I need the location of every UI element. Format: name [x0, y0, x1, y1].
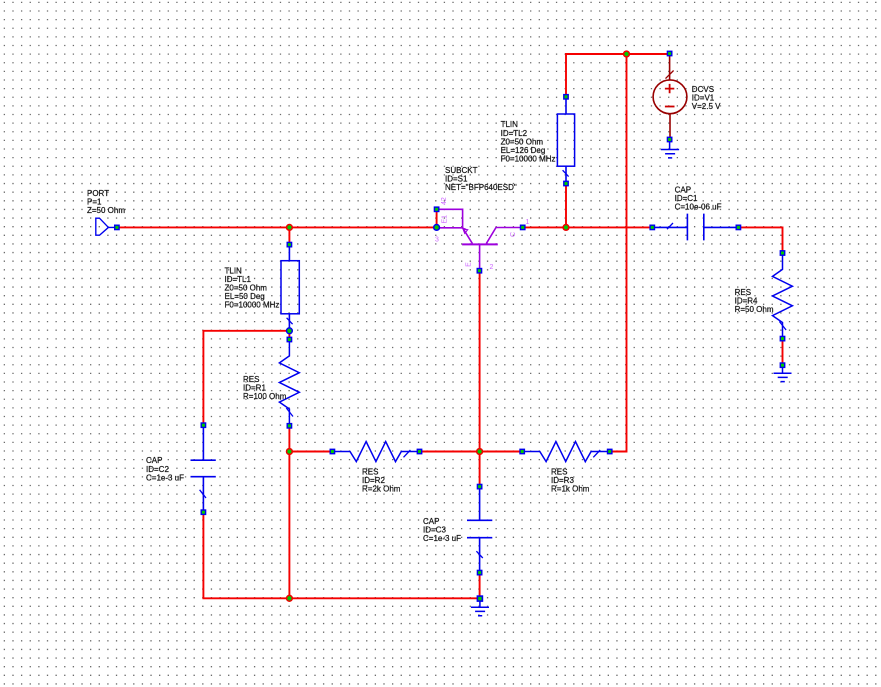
wire: C3 bottom to ground terminal	[479, 573, 481, 599]
terminal: ground under R4	[780, 363, 784, 367]
transmission line TL2	[557, 99, 574, 181]
capacitor C2	[191, 428, 216, 510]
label RES R2	[362, 467, 401, 493]
capacitor C3	[467, 489, 492, 570]
terminal: TL1 pin 1	[287, 242, 291, 246]
wire: node N3 to C1 left terminal	[566, 226, 652, 228]
node N6 (R1 / R2 / bottom branch)	[287, 449, 293, 455]
label CAP C1	[675, 185, 722, 211]
resistor R2	[335, 442, 417, 462]
node N1 (main line / TL1 branch)	[287, 225, 293, 231]
label DCVS V1	[692, 85, 721, 111]
svg-text:2: 2	[490, 264, 494, 271]
terminal: R4 pin 2	[780, 336, 784, 340]
ground symbol under C3	[471, 602, 489, 616]
terminal: C2 pin 1	[201, 423, 205, 427]
wire: node N5 stub to R1 top	[288, 331, 290, 340]
svg-text:1: 1	[526, 219, 530, 226]
label PORT P=1	[87, 189, 125, 215]
terminal: TL2 pin 2	[564, 181, 568, 185]
node N5 (TL1 bottom / C2 / R1)	[287, 328, 293, 334]
svg-text:F0=10000 MHz: F0=10000 MHz	[501, 155, 556, 164]
wire: node N8 to ground terminal	[289, 597, 480, 599]
wire: R1 bottom to node N6	[288, 426, 290, 452]
label SUBCKT S1	[445, 166, 517, 192]
resistor R4	[773, 256, 793, 337]
svg-text:Z=50 Ohm: Z=50 Ohm	[87, 206, 125, 215]
terminal: R1 pin 2	[287, 424, 291, 428]
svg-text:R=2k Ohm: R=2k Ohm	[362, 485, 401, 494]
wire: rail corner down to TL2 top	[565, 54, 567, 97]
terminal: C1 pin 1	[650, 225, 654, 229]
svg-text:V=2.5 V: V=2.5 V	[692, 102, 721, 111]
wire: R4 bottom to ground terminal	[782, 339, 784, 366]
transistor S1 pin number and name labels	[435, 197, 530, 271]
terminal: V1 plus pin	[667, 51, 671, 55]
terminal: V1 minus pin	[667, 137, 671, 141]
terminal: R3 pin 1	[520, 449, 524, 453]
svg-text:R=1k Ohm: R=1k Ohm	[551, 485, 590, 494]
terminal: R2 pin 2	[417, 449, 421, 453]
terminal: R3 pin 2	[608, 449, 612, 453]
label RES R1	[243, 375, 287, 401]
label RES R3	[551, 467, 590, 493]
node N8 (bottom rail junction)	[287, 595, 293, 601]
wire: top rail	[566, 53, 670, 55]
wire: node N5 left and down to C2 top	[203, 331, 289, 425]
terminal: TL2 pin 1	[564, 95, 568, 99]
terminal: C3 pin 1	[477, 484, 481, 488]
node N3 (main line / TL2 branch)	[563, 225, 569, 231]
wire: S1 emitter down to node N7	[479, 271, 481, 452]
transmission line TL1	[281, 247, 299, 329]
svg-text:R=50 Ohm: R=50 Ohm	[735, 305, 774, 314]
svg-text:C: C	[510, 232, 517, 237]
wire: S1 collector to node N3	[523, 226, 566, 228]
label TLIN TL2	[501, 120, 556, 163]
terminal: S1 pin 1 collector	[521, 225, 525, 229]
resistor R3	[525, 442, 607, 462]
wire: C2 bottom down and right to node N8	[203, 512, 289, 598]
wire: node N6 down to bottom rail node N8	[288, 452, 290, 599]
wire: stub node N2 up to S1 pin 4	[436, 211, 438, 227]
svg-text:C=1e-3 uF: C=1e-3 uF	[423, 534, 461, 543]
voltage source V1 (DCVS)	[653, 56, 687, 137]
label CAP C3	[423, 517, 461, 543]
wire: R2 right to node N7	[420, 451, 480, 453]
resistor R1	[279, 342, 299, 423]
node N7 (R2 / R3 / emitter / C3)	[477, 449, 483, 455]
svg-text:F0=10000 MHz: F0=10000 MHz	[225, 301, 280, 310]
svg-text:NET="BFP640ESD": NET="BFP640ESD"	[445, 183, 517, 192]
transistor S1 (SUBCKT BFP640ESD)	[439, 209, 520, 268]
terminal: port P1	[115, 225, 119, 229]
svg-text:3: 3	[435, 237, 439, 244]
port P1 symbol	[96, 218, 114, 235]
capacitor C1	[655, 214, 736, 241]
terminal: R4 pin 1	[780, 251, 784, 255]
terminal: C3 pin 2	[477, 570, 481, 574]
wire: port to node N1	[120, 226, 290, 228]
wire: node N1 to transistor node N2	[289, 226, 436, 228]
label TLIN TL1	[225, 266, 280, 309]
svg-text:C=10e-06 uF: C=10e-06 uF	[675, 203, 722, 212]
terminal: S1 pin 2 emitter	[477, 269, 481, 273]
wire: node N7 down to C3 top	[479, 452, 481, 487]
ground symbol under V1	[661, 142, 679, 158]
wire: node N6 to R2 left terminal	[289, 451, 332, 453]
label CAP C2	[146, 456, 184, 482]
label RES R4	[735, 288, 774, 314]
terminal: R2 pin 1	[330, 449, 334, 453]
terminal: S1 pin 4	[434, 207, 438, 211]
svg-text:42: 42	[441, 197, 448, 205]
wire: C1 right to corner and down to R4 top	[738, 227, 782, 253]
wire: TL2 bottom to node N3	[565, 184, 567, 228]
wire: node N7 to R3 left terminal	[480, 451, 523, 453]
svg-text:E: E	[465, 262, 472, 267]
terminal: R1 pin 1	[287, 337, 291, 341]
terminal: C1 pin 2	[736, 225, 740, 229]
terminal: ground node at bottom rail	[477, 596, 482, 601]
node N2 (main line / transistor base)	[434, 225, 440, 231]
svg-text:R=100 Ohm: R=100 Ohm	[243, 392, 287, 401]
wire: node N1 stub to TL1 top terminal	[288, 227, 290, 244]
terminal: C2 pin 2	[201, 510, 205, 514]
ground symbol under R4	[774, 368, 792, 382]
wire: rail node N4 down to R3 right corner	[610, 54, 627, 452]
node N4 (top rail junction)	[624, 51, 630, 57]
svg-text:C=1e-3 uF: C=1e-3 uF	[146, 473, 184, 482]
svg-text:E1: E1	[442, 215, 449, 224]
